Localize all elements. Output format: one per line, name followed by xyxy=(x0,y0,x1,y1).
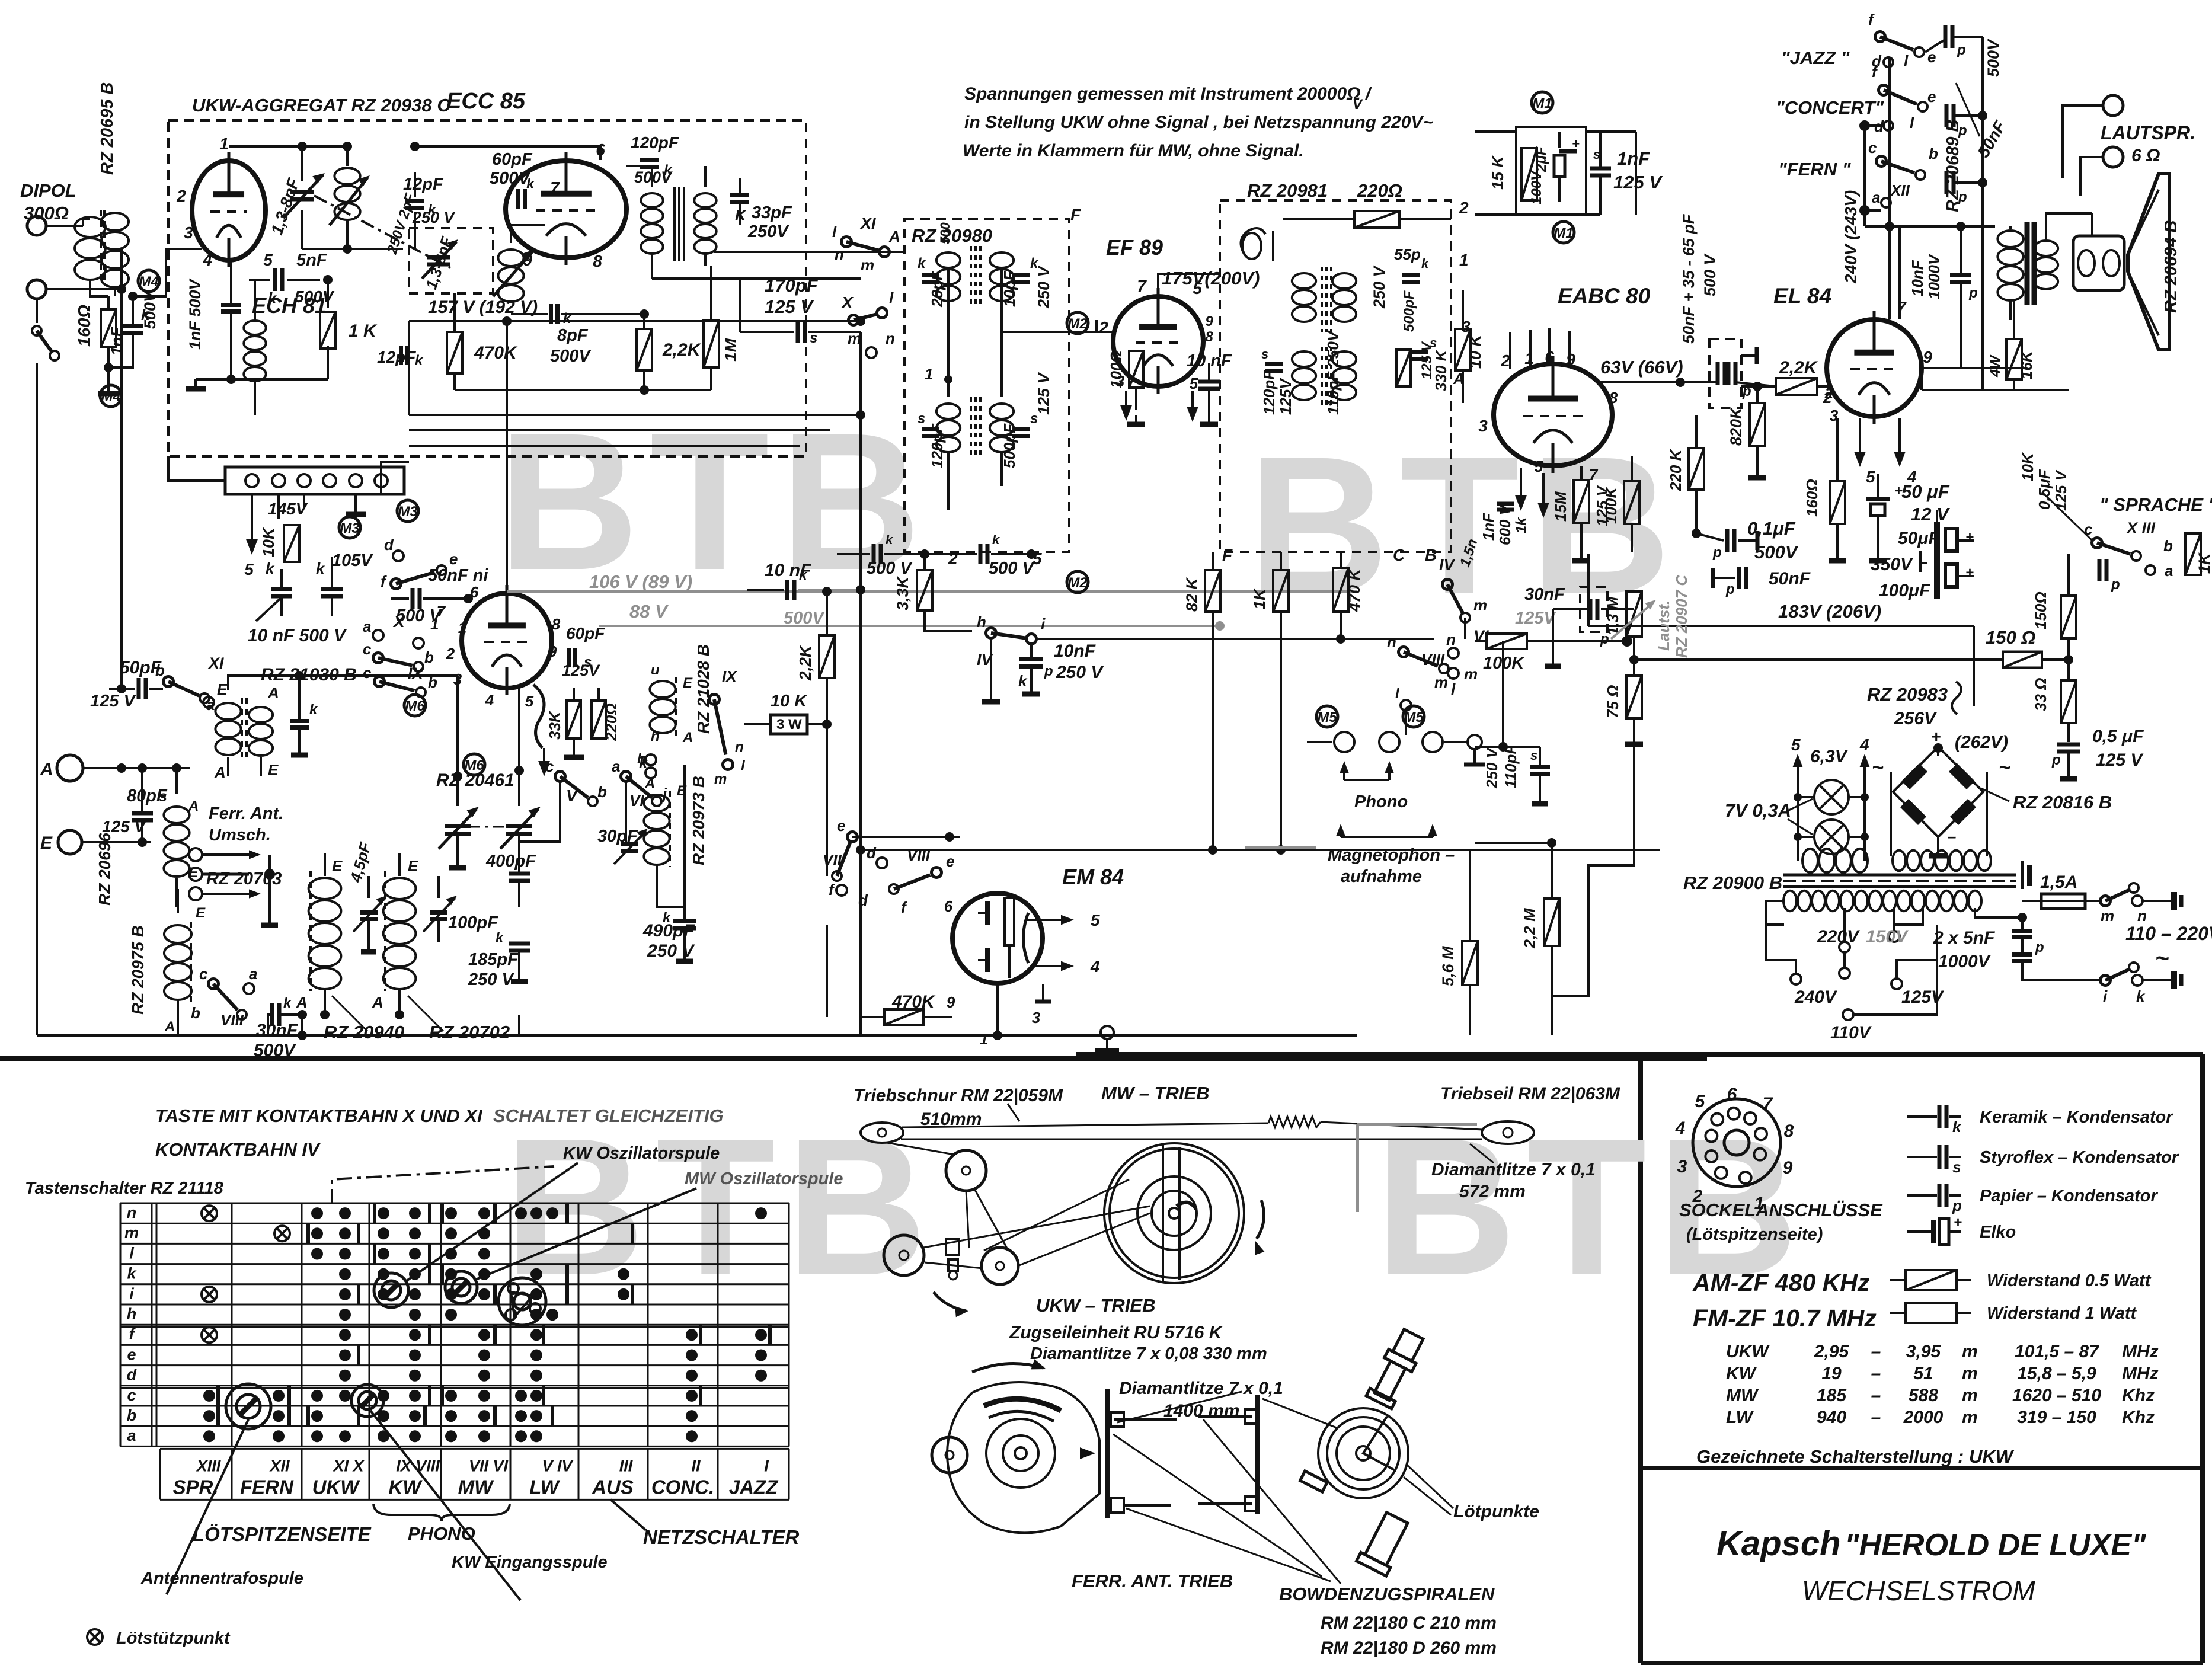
svg-text:0,5μF: 0,5μF xyxy=(2035,469,2053,510)
svg-text:125V: 125V xyxy=(1901,987,1945,1007)
svg-text:150Ω: 150Ω xyxy=(2032,591,2050,629)
svg-text:Keramik – Kondensator: Keramik – Kondensator xyxy=(1980,1108,2173,1127)
ferrite antenna changeover contacts xyxy=(189,848,202,861)
mains switch upper m n xyxy=(2100,896,2111,906)
svg-text:E: E xyxy=(268,761,279,779)
svg-text:+: + xyxy=(1965,529,1974,545)
svg-text:AUS: AUS xyxy=(592,1476,634,1498)
svg-text:9: 9 xyxy=(1566,350,1575,369)
svg-text:500V: 500V xyxy=(1754,542,1799,562)
svg-text:l: l xyxy=(1910,114,1914,132)
svg-text:4: 4 xyxy=(1090,957,1100,976)
bottom-right panel middle divider xyxy=(1641,1466,2203,1470)
gang tuning dash-dot link xyxy=(314,196,450,268)
rotation arrow lower left xyxy=(934,1292,966,1311)
svg-text:3: 3 xyxy=(1677,1157,1687,1176)
svg-text:Umsch.: Umsch. xyxy=(209,826,271,845)
svg-text:E: E xyxy=(196,905,206,921)
coil adjustment screw KW Eingangsspule xyxy=(351,1385,383,1417)
resistor 2,2K xyxy=(637,329,652,370)
svg-text:101,5 – 87: 101,5 – 87 xyxy=(2015,1342,2099,1361)
svg-text:s: s xyxy=(159,788,167,805)
capacitor 50nF+ pin7 line xyxy=(1898,226,1901,319)
svg-text:–: – xyxy=(1871,1408,1881,1427)
svg-text:a: a xyxy=(1872,188,1880,206)
svg-text:6: 6 xyxy=(470,583,479,601)
svg-text:E: E xyxy=(677,783,687,799)
legend Elko symbol xyxy=(1907,1230,1931,1233)
svg-text:FERR. ANT. TRIEB: FERR. ANT. TRIEB xyxy=(1072,1571,1233,1591)
svg-text:7: 7 xyxy=(1763,1094,1773,1114)
svg-text:RZ 20981: RZ 20981 xyxy=(1247,180,1328,201)
svg-text:Gezeichnete Schalterstellung: Gezeichnete Schalterstellung : UKW xyxy=(1696,1446,2015,1467)
wire ground bus lower left xyxy=(37,1034,1357,1037)
svg-text:M4: M4 xyxy=(101,389,120,405)
svg-text:n: n xyxy=(1446,631,1456,648)
svg-text:X: X xyxy=(392,612,406,631)
svg-text:RZ 20975 B: RZ 20975 B xyxy=(129,925,147,1015)
IF transformer 2 in RZ20980 xyxy=(936,404,960,419)
svg-text:k: k xyxy=(316,559,325,577)
svg-text:2: 2 xyxy=(1098,318,1108,337)
svg-text:c: c xyxy=(363,640,372,658)
svg-text:20pF: 20pF xyxy=(928,270,946,308)
svg-text:NETZSCHALTER: NETZSCHALTER xyxy=(643,1526,800,1548)
svg-text:XIII: XIII xyxy=(196,1457,221,1475)
wire pot to 75 ohm xyxy=(1633,637,1635,676)
svg-text:M6: M6 xyxy=(405,698,425,714)
svg-text:3,3K: 3,3K xyxy=(894,575,912,610)
svg-text:2 x 5nF: 2 x 5nF xyxy=(1933,928,1995,948)
svg-text:4W: 4W xyxy=(1987,354,2003,378)
capacitor 1nF k xyxy=(123,324,143,328)
svg-text:SPR.: SPR. xyxy=(172,1476,218,1498)
svg-text:220 K: 220 K xyxy=(1667,448,1684,491)
svg-text:m: m xyxy=(124,1224,139,1242)
svg-text:F: F xyxy=(1070,206,1081,224)
pointer line Antennentrafospule xyxy=(167,1419,248,1594)
tuning indicator tube EM84 xyxy=(952,893,1043,983)
resistor 3,3K xyxy=(917,570,932,610)
svg-text:h: h xyxy=(651,728,660,744)
svg-text:500 V: 500 V xyxy=(1701,253,1719,296)
ground ECC85 cathode xyxy=(196,378,328,381)
svg-text:XI: XI xyxy=(859,215,876,232)
legend Styroflex-Kondensator symbol xyxy=(1907,1156,1937,1158)
svg-text:a: a xyxy=(612,757,620,775)
svg-text:7V 0,3A: 7V 0,3A xyxy=(1725,800,1791,821)
svg-text:100K: 100K xyxy=(1602,486,1620,524)
svg-text:+: + xyxy=(1572,136,1580,151)
svg-text:LW: LW xyxy=(529,1476,560,1498)
antenna input transformer RZ 20695 B xyxy=(75,217,106,237)
rectifier winding xyxy=(1890,772,1892,856)
ferrite antenna right mounting plate xyxy=(1255,1395,1260,1514)
pentode EF89 xyxy=(1113,296,1203,386)
svg-text:+: + xyxy=(1954,1214,1962,1230)
measuring point M5 badge right xyxy=(1403,706,1424,727)
svg-text:50nF ni: 50nF ni xyxy=(428,566,488,585)
svg-text:n: n xyxy=(2137,907,2147,925)
svg-text:l: l xyxy=(832,223,837,241)
label Diamantlitze 7x0,1 572mm xyxy=(1470,1144,1494,1163)
svg-text:h: h xyxy=(977,613,986,631)
capacitor 185pF 250V xyxy=(509,942,530,946)
dash-dot pointer to kontaktbahn xyxy=(332,1166,554,1204)
svg-text:(Lötspitzenseite): (Lötspitzenseite) xyxy=(1686,1225,1823,1244)
svg-text:B: B xyxy=(1425,546,1437,564)
svg-text:500pF: 500pF xyxy=(1401,290,1417,332)
svg-text:b: b xyxy=(424,648,434,666)
svg-text:Zugseileinheit RU 5716 K: Zugseileinheit RU 5716 K xyxy=(1009,1323,1223,1342)
svg-text:125 V: 125 V xyxy=(90,692,136,711)
svg-text:5: 5 xyxy=(1695,1092,1706,1111)
wire left vertical to 50pF xyxy=(120,249,123,689)
svg-text:Khz: Khz xyxy=(2122,1386,2155,1405)
wires around M1 box xyxy=(1475,130,1516,133)
svg-text:250 V: 250 V xyxy=(412,209,456,226)
svg-text:d: d xyxy=(127,1366,137,1384)
resistor 75 ohm xyxy=(1626,676,1642,718)
svg-text:100pF: 100pF xyxy=(448,913,498,932)
dashed enclosure UKW-AGGREGAT xyxy=(168,120,806,456)
svg-text:2,2 M: 2,2 M xyxy=(1521,908,1539,949)
svg-text:1620 – 510: 1620 – 510 xyxy=(2012,1386,2101,1405)
resistor 220 ohm xyxy=(592,701,606,738)
svg-text:n: n xyxy=(1387,633,1396,651)
svg-text:" SPRACHE ": " SPRACHE " xyxy=(2099,494,2212,515)
svg-text:5: 5 xyxy=(1193,279,1202,298)
svg-text:A: A xyxy=(214,763,226,781)
wire anode ECC85a to tuned circuit xyxy=(229,145,347,148)
IF transformer 1 in RZ20980 xyxy=(936,252,960,268)
svg-text:III: III xyxy=(619,1457,633,1475)
svg-text:500 V: 500 V xyxy=(989,559,1035,578)
pin stems EABC80 top xyxy=(1509,332,1511,369)
capacitors 10nF 500V pair xyxy=(271,587,292,591)
svg-text:250 V: 250 V xyxy=(1483,746,1501,789)
svg-text:s: s xyxy=(1952,1158,1961,1176)
tension clip xyxy=(946,1239,959,1255)
svg-text:k: k xyxy=(886,532,894,547)
svg-text:50μF: 50μF xyxy=(1898,529,1939,548)
svg-text:p: p xyxy=(1957,42,1966,58)
svg-text:"HEROLD DE LUXE": "HEROLD DE LUXE" xyxy=(1845,1528,2147,1562)
svg-text:b: b xyxy=(155,661,165,679)
svg-text:Lautst.: Lautst. xyxy=(1655,600,1673,651)
svg-text:Papier – Kondensator: Papier – Kondensator xyxy=(1980,1187,2158,1206)
svg-text:m: m xyxy=(1962,1386,1978,1405)
svg-text:3: 3 xyxy=(184,223,193,242)
svg-text:e: e xyxy=(127,1345,136,1363)
svg-text:63V (66V): 63V (66V) xyxy=(1600,357,1683,378)
svg-text:d: d xyxy=(384,536,394,554)
svg-text:l: l xyxy=(1904,52,1909,70)
resistor 10K right edge xyxy=(1455,329,1471,370)
svg-text:170pF: 170pF xyxy=(765,275,819,296)
svg-text:51: 51 xyxy=(1913,1364,1933,1383)
IF coil RZ 20973 B xyxy=(644,795,669,811)
svg-text:5: 5 xyxy=(1535,458,1543,475)
ferrite antenna coil xyxy=(164,807,189,823)
svg-text:10pF: 10pF xyxy=(1000,270,1018,307)
pointer line NETZSCHALTER xyxy=(610,1499,646,1530)
svg-text:100V: 100V xyxy=(1529,170,1545,204)
svg-text:10 K: 10 K xyxy=(771,692,808,711)
svg-text:5: 5 xyxy=(1091,911,1100,929)
svg-text:E: E xyxy=(40,833,53,853)
svg-text:120pF: 120pF xyxy=(928,423,946,468)
svg-text:Khz: Khz xyxy=(2122,1408,2155,1427)
svg-text:9: 9 xyxy=(947,993,955,1011)
IF output transformer after ECC85b xyxy=(641,193,663,207)
svg-text:88 V: 88 V xyxy=(629,601,669,622)
svg-text:RZ 20694 B: RZ 20694 B xyxy=(2162,220,2181,313)
magnetophon bracket label xyxy=(1336,824,1345,836)
svg-text:k: k xyxy=(283,995,292,1011)
svg-text:125 V: 125 V xyxy=(1613,172,1663,193)
svg-text:XI X: XI X xyxy=(332,1457,365,1475)
svg-text:C: C xyxy=(1393,546,1405,564)
horizontal separator between schematic and lower section xyxy=(0,1056,1707,1061)
wire 12pF branch xyxy=(414,172,416,197)
svg-text:k: k xyxy=(127,1265,137,1283)
phono bracket label xyxy=(1340,761,1348,773)
output pentode EL84 xyxy=(1827,319,1922,417)
svg-text:m: m xyxy=(1464,665,1478,683)
wire horizontal at 1422 xyxy=(1475,842,1552,844)
svg-text:n: n xyxy=(127,1204,137,1222)
soldering support crossed circles in matrix xyxy=(202,1206,217,1221)
ferrite antenna rods left xyxy=(1114,1418,1177,1421)
svg-text:175V(200V): 175V(200V) xyxy=(1162,268,1260,289)
svg-text:2: 2 xyxy=(446,645,455,663)
svg-text:1M: 1M xyxy=(721,338,740,362)
svg-text:7: 7 xyxy=(1897,298,1907,316)
svg-text:l: l xyxy=(1451,680,1456,698)
antenna change-over switch xyxy=(36,299,38,323)
svg-text:AM-ZF 480 KHz: AM-ZF 480 KHz xyxy=(1692,1269,1870,1296)
svg-text:m: m xyxy=(2101,907,2114,925)
resistor 1K SPRACHE xyxy=(2185,533,2201,575)
svg-text:2: 2 xyxy=(948,549,958,568)
svg-text:KONTAKTBAHN IV: KONTAKTBAHN IV xyxy=(155,1139,321,1160)
svg-text:RZ 20703: RZ 20703 xyxy=(206,869,282,888)
svg-text:8: 8 xyxy=(593,252,602,270)
svg-text:UKW: UKW xyxy=(1726,1342,1770,1361)
svg-text:256V: 256V xyxy=(1894,709,1938,728)
svg-text:M2: M2 xyxy=(1067,575,1088,591)
svg-text:150V: 150V xyxy=(1866,927,1909,947)
bridge rectifier RZ 20816 B xyxy=(1937,747,1939,756)
svg-text:1K: 1K xyxy=(1251,587,1268,609)
svg-text:Diamantlitze 7 x 0,08 33: Diamantlitze 7 x 0,08 330 mm xyxy=(1030,1344,1267,1363)
trimmer 100pF xyxy=(430,910,447,915)
svg-text:e: e xyxy=(837,817,845,834)
cord crossing lines xyxy=(887,1143,954,1155)
svg-text:470 K: 470 K xyxy=(1345,567,1363,612)
rotation arrow ferrite cam xyxy=(972,1363,1043,1372)
svg-text:l: l xyxy=(889,289,894,307)
wire from EM84 region to power area xyxy=(1552,735,1634,996)
svg-text:4: 4 xyxy=(485,691,494,709)
svg-text:Antennentrafospule: Antennentrafospule xyxy=(140,1569,303,1588)
svg-text:b: b xyxy=(127,1406,137,1424)
svg-text:EABC 80: EABC 80 xyxy=(1558,284,1651,308)
svg-text:100μF: 100μF xyxy=(1879,581,1930,600)
svg-text:3 W: 3 W xyxy=(776,717,802,733)
svg-text:+: + xyxy=(1931,727,1941,746)
primary taps xyxy=(1843,908,1846,941)
svg-text:k: k xyxy=(2136,987,2146,1005)
svg-text:KW Oszillatorspule: KW Oszillatorspule xyxy=(563,1144,720,1163)
EM84 output arrows 5 and 4 xyxy=(1027,919,1067,921)
svg-text:1nF 500V: 1nF 500V xyxy=(186,278,204,350)
svg-text:4: 4 xyxy=(202,251,212,269)
svg-text:6,3V: 6,3V xyxy=(1810,747,1849,766)
resistor 100K below EABC80 xyxy=(1624,481,1639,524)
wire tuned circuit to grid bus xyxy=(302,248,403,250)
svg-text:125 V: 125 V xyxy=(2052,469,2070,511)
svg-text:5,6 M: 5,6 M xyxy=(1439,946,1457,986)
svg-text:PHONO: PHONO xyxy=(408,1523,475,1544)
svg-text:120pF: 120pF xyxy=(631,133,679,152)
svg-text:b: b xyxy=(597,783,607,801)
svg-text:15 K: 15 K xyxy=(1489,154,1507,190)
svg-text:BOWDENZUGSPIRALEN: BOWDENZUGSPIRALEN xyxy=(1279,1584,1495,1604)
svg-text:p: p xyxy=(2051,752,2061,768)
svg-text:E: E xyxy=(217,680,228,698)
box around 15K and 2uF xyxy=(1516,127,1586,215)
resistor 15M xyxy=(1574,480,1589,523)
variable capacitor 1,3-8pF second xyxy=(427,255,450,260)
svg-text:50nF + 35 - 65 pF: 50nF + 35 - 65 pF xyxy=(1680,213,1698,344)
wire lower bus inside UKW box xyxy=(455,389,711,391)
svg-text:125 V: 125 V xyxy=(765,296,814,317)
inner dashed box oscillator section xyxy=(409,228,493,293)
svg-text:+: + xyxy=(1965,565,1974,581)
svg-text:k: k xyxy=(1018,672,1028,690)
svg-text:VIII: VIII xyxy=(907,846,931,864)
resistor 100 ohm EF89 cathode xyxy=(1129,351,1143,388)
svg-text:160Ω: 160Ω xyxy=(75,305,94,347)
svg-text:~: ~ xyxy=(1872,756,1884,779)
svg-text:RZ 20907 C: RZ 20907 C xyxy=(1673,574,1690,658)
svg-text:19: 19 xyxy=(1821,1364,1842,1383)
svg-text:d: d xyxy=(867,844,877,862)
svg-text:12 V: 12 V xyxy=(1911,504,1950,525)
column footer boxes with band names xyxy=(160,1448,789,1450)
svg-text:4: 4 xyxy=(1859,736,1869,754)
svg-text:125V: 125V xyxy=(1277,378,1294,415)
wire from dipole to antenna transformer xyxy=(46,225,83,227)
svg-text:XII: XII xyxy=(1890,181,1910,199)
svg-text:RZ 20973 B: RZ 20973 B xyxy=(689,776,708,865)
bottom-right panel right border xyxy=(2200,1054,2205,1663)
resistor 470K xyxy=(447,332,462,373)
svg-text:M1: M1 xyxy=(1532,95,1552,111)
svg-text:k: k xyxy=(1952,1118,1962,1136)
oscillator coil RZ 20702 xyxy=(384,871,386,991)
svg-text:s: s xyxy=(1261,347,1268,362)
svg-text:in Stellung UKW ohne Signal ,: in Stellung UKW ohne Signal , bei Netzsp… xyxy=(964,113,1433,132)
svg-text:p: p xyxy=(1958,123,1967,139)
svg-text:M1: M1 xyxy=(1553,225,1573,241)
svg-text:aufnahme: aufnahme xyxy=(1341,867,1422,886)
svg-text:SCHALTET GLEICHZEITIG: SCHALTET GLEICHZEITIG xyxy=(493,1105,724,1126)
svg-text:"CONCERT": "CONCERT" xyxy=(1776,97,1884,118)
svg-text:400pF: 400pF xyxy=(485,852,536,871)
wire EF89 plate top xyxy=(1158,274,1221,288)
svg-text:12pF: 12pF xyxy=(377,348,416,366)
svg-text:10 nF 500 V: 10 nF 500 V xyxy=(248,626,347,645)
capacitor 1nF 125V xyxy=(1590,167,1611,171)
svg-text:k: k xyxy=(415,353,424,369)
svg-text:2,2K: 2,2K xyxy=(796,644,814,681)
svg-text:1,5A: 1,5A xyxy=(2040,872,2077,892)
svg-text:k: k xyxy=(266,559,275,577)
svg-text:m: m xyxy=(1962,1342,1978,1361)
svg-text:50 μF: 50 μF xyxy=(1901,481,1950,502)
svg-text:125 V: 125 V xyxy=(2096,750,2144,770)
svg-text:LÖTSPITZENSEITE: LÖTSPITZENSEITE xyxy=(193,1523,372,1545)
svg-text:Phono: Phono xyxy=(1354,792,1408,811)
variable capacitor main tuning right xyxy=(506,824,532,828)
svg-text:KW Eingangsspule: KW Eingangsspule xyxy=(452,1553,608,1572)
wire EL84 pin9 to 16K xyxy=(1922,367,2027,369)
phono bracket xyxy=(373,1504,510,1521)
svg-text:125V: 125V xyxy=(1515,609,1556,628)
dipole terminal lower xyxy=(27,280,46,299)
svg-text:Diamantlitze 7 x 0,1: Diamantlitze 7 x 0,1 xyxy=(1431,1160,1596,1179)
svg-text:A: A xyxy=(40,760,53,779)
pointer line KW Oszillatorspule xyxy=(405,1163,578,1282)
svg-text:l: l xyxy=(129,1244,134,1262)
svg-text:E: E xyxy=(683,675,693,691)
svg-text:2,95: 2,95 xyxy=(1814,1342,1850,1361)
svg-text:c: c xyxy=(2084,520,2093,538)
svg-text:250 V: 250 V xyxy=(647,941,695,961)
cathode RF choke coil xyxy=(244,321,266,335)
svg-text:572 mm: 572 mm xyxy=(1459,1182,1526,1201)
svg-text:12pF: 12pF xyxy=(403,175,444,194)
svg-text:K: K xyxy=(735,206,747,224)
svg-text:5: 5 xyxy=(244,560,254,578)
band filter coil pair RZ21030B xyxy=(215,703,241,720)
svg-text:2: 2 xyxy=(1824,384,1834,402)
diode arrows below EABC80 xyxy=(1520,468,1522,499)
svg-text:KW: KW xyxy=(389,1476,423,1498)
wire ECH81 anode to 157V line xyxy=(506,321,508,586)
svg-text:A: A xyxy=(188,798,199,814)
svg-text:1k: 1k xyxy=(1513,517,1529,533)
loudspeaker xyxy=(2046,213,2092,239)
svg-text:2,2K: 2,2K xyxy=(1779,358,1818,378)
svg-text:Ferr. Ant.: Ferr. Ant. xyxy=(209,804,283,823)
legend Loetstuetzpunkt xyxy=(87,1629,103,1645)
svg-text:1: 1 xyxy=(1459,251,1469,269)
mains switch lower i k xyxy=(2100,975,2111,986)
svg-text:X: X xyxy=(840,293,854,312)
svg-text:s: s xyxy=(918,411,925,427)
svg-text:p: p xyxy=(2035,939,2044,955)
svg-text:RZ 20900 B: RZ 20900 B xyxy=(1683,872,1782,893)
svg-text:15M: 15M xyxy=(1552,491,1570,522)
pointer line MW Oszillatorspule xyxy=(474,1188,696,1280)
svg-text:d: d xyxy=(858,891,868,909)
svg-text:Styroflex – Kondensator: Styroflex – Kondensator xyxy=(1980,1148,2179,1167)
svg-text:p: p xyxy=(1725,581,1735,597)
